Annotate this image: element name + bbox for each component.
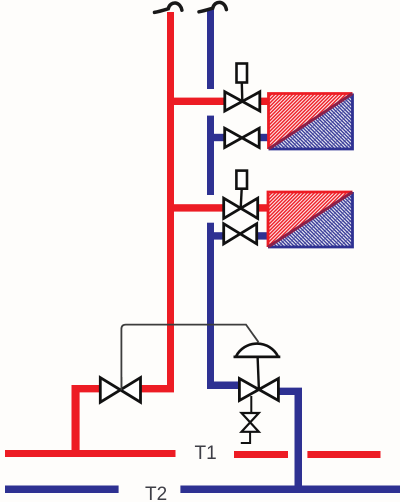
svg-text:T2: T2: [145, 484, 167, 502]
bottom red pipe with drop to T1 main: [72, 385, 102, 457]
lockshield valve radiator 1: [225, 128, 260, 147]
drain valve: [242, 413, 259, 432]
red main T1 segments: [5, 450, 176, 457]
blue pipe from control valve to T2 main: [278, 388, 302, 493]
capillary stub into balancing valve: [120, 377, 122, 390]
pipe break symbol top of red riser: [155, 3, 182, 12]
blue return riser lower segment: [207, 223, 214, 389]
red branch to radiator 2: [167, 204, 225, 211]
drain outlet with foot: [241, 432, 250, 443]
blue return riser upper segment: [207, 9, 214, 89]
actuator stem: [258, 357, 259, 390]
radiator 2: [268, 192, 353, 247]
blue return riser middle segment: [207, 116, 214, 195]
lockshield valve radiator 2: [224, 224, 257, 244]
red branch to radiator 1: [167, 98, 226, 105]
blue pipe from riser to control valve: [207, 382, 240, 390]
capillary tube from balancing valve to actuator: [121, 325, 258, 390]
thermostatic valve body radiator 1: [225, 92, 260, 111]
blue main T2 segments: [5, 486, 119, 494]
thermostatic head radiator 1: [237, 64, 248, 102]
balancing valve on red pipe: [100, 378, 140, 403]
thermostatic valve body radiator 2: [224, 198, 258, 218]
pipe break symbol top of blue riser: [199, 2, 226, 11]
blue stub radiator 2: [210, 232, 225, 239]
blue stub radiator 1: [210, 134, 226, 141]
drain stem from control valve: [250, 396, 252, 414]
svg-text:T1: T1: [195, 443, 217, 464]
actuator diaphragm dome: [234, 344, 281, 357]
thermostatic head radiator 2: [236, 171, 247, 209]
radiator 1: [269, 94, 353, 150]
red supply riser: [167, 12, 174, 392]
control valve body: [239, 379, 278, 401]
